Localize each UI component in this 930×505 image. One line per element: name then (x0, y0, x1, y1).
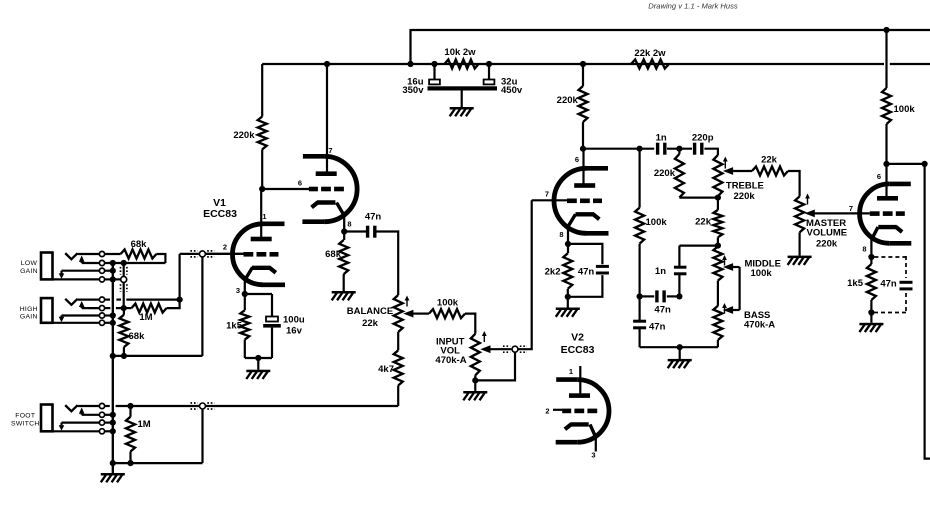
svg-text:68k: 68k (325, 249, 342, 260)
capacitor 47n (mid) (655, 290, 666, 302)
svg-text:470k-A: 470k-A (435, 355, 466, 366)
jack HIGH GAIN input (41, 297, 105, 325)
svg-text:8: 8 (559, 230, 563, 239)
wire cathode gnd stub (257, 358, 259, 370)
wire shield drain S3 (201, 409, 203, 463)
svg-text:1k5: 1k5 (847, 278, 864, 289)
label 1k5 V3 (847, 278, 864, 289)
node middle top (715, 243, 721, 249)
wire 1n mid bottom (678, 274, 680, 296)
wire 4k7 bottom (397, 386, 399, 407)
resistor 22k (mid) (713, 198, 722, 247)
svg-text:3: 3 (236, 286, 240, 295)
label 22k 2w (634, 48, 666, 59)
label 47n V1b (365, 211, 382, 222)
tube V2a (ECC83) (554, 168, 609, 233)
wiper INPUT VOL (480, 345, 511, 353)
svg-text:350v: 350v (402, 85, 424, 96)
resistor 100k (balance-input) (429, 309, 465, 318)
label 16v (286, 326, 303, 337)
svg-text:450v: 450v (501, 85, 523, 96)
wire 1M to grid node (167, 300, 180, 309)
pin 8 label V3 (862, 245, 866, 254)
up arrow INPUT VOL (482, 331, 487, 342)
svg-text:100k: 100k (751, 268, 773, 279)
wire mid cap branch (679, 245, 718, 247)
ground V1a cathode (246, 370, 270, 379)
pin 8 label V2a (559, 230, 563, 239)
wire V1a cathode lead (245, 267, 253, 294)
shield marks cable (121, 267, 127, 292)
wire HIGH row3 (105, 314, 113, 316)
wiper MIDDLE (723, 263, 740, 271)
pin 7 label V1b (328, 146, 332, 155)
wire right edge drop (925, 164, 930, 459)
wire HIGH tip a (105, 299, 110, 301)
up arrow BASS (722, 303, 727, 314)
up arrow MASTER (805, 194, 810, 205)
shield ring S3 (200, 403, 206, 409)
wire dashed 47n top (874, 256, 906, 278)
jack FOOT SWITCH (41, 403, 105, 434)
wire dashed 47n bottom (874, 293, 906, 314)
label 47n mid (654, 305, 671, 316)
capacitor 47n (V3 optional) (900, 281, 913, 291)
label 450v (501, 85, 523, 96)
ground filter caps (450, 107, 474, 116)
svg-text:1k5: 1k5 (226, 321, 243, 332)
wire bass pot bottom (717, 340, 719, 347)
svg-text:220k: 220k (557, 95, 579, 106)
node 16u junction (431, 61, 437, 67)
wire LOW row4 (105, 278, 121, 280)
wire V1a grid lead (206, 253, 244, 255)
label 1k5 V1a (226, 321, 243, 332)
wire grid node up (179, 254, 181, 300)
svg-text:220p: 220p (692, 133, 714, 144)
node LOW row4 bus (110, 276, 116, 282)
wire 220k V1a bottom (261, 149, 263, 189)
wire rail riser (409, 29, 411, 64)
svg-text:8: 8 (862, 245, 866, 254)
resistor 220k (V2a plate) (579, 86, 588, 122)
label TREBLE (726, 181, 764, 192)
svg-text:1M: 1M (139, 312, 152, 323)
wire tone gnd stub (679, 347, 681, 359)
wire ground bus (112, 263, 114, 473)
wire V1b plate lead (326, 64, 328, 174)
node 1M 68k junction (121, 305, 127, 311)
svg-text:2: 2 (545, 406, 549, 415)
label 220k V2a (557, 95, 579, 106)
node V1b cathode junction (341, 228, 347, 234)
svg-text:VOLUME: VOLUME (807, 227, 848, 238)
wire shield to V1a grid (206, 253, 244, 255)
wire master bottom (798, 232, 800, 255)
wire V2a plate lead (582, 149, 584, 185)
node top rail junction (883, 27, 889, 33)
label 220k V1a (233, 130, 255, 141)
label 22k mid (695, 217, 712, 228)
wire B+ top rail (411, 29, 930, 31)
pin 8 label V1b (347, 220, 351, 229)
resistor 220k (tone slope) (675, 149, 684, 198)
wire shielded cable conductor (123, 263, 125, 308)
node shielded cable top (121, 260, 127, 266)
wiper BALANCE (403, 310, 429, 318)
label 1M FOOT (138, 419, 151, 430)
svg-text:1n: 1n (656, 133, 667, 144)
ground V3 cathode (859, 323, 883, 332)
resistor 4k7 (394, 350, 403, 385)
label 220p (692, 133, 714, 144)
resistor 10k 2w (445, 60, 479, 69)
resistor 68k (HIGH shunt) (119, 308, 128, 356)
node 1k5 V3 bottom (868, 309, 874, 315)
wire S4 drain (475, 353, 515, 381)
node V1a plate junction (259, 186, 265, 192)
svg-text:47n: 47n (649, 322, 666, 333)
capacitor 32u 450v (484, 64, 495, 84)
node LOW row3 bus (110, 268, 116, 274)
wire bass cap top (638, 296, 640, 321)
capacitor 1n (treble) (656, 143, 667, 155)
node 2k2 bottom (565, 294, 571, 300)
ground bus (101, 473, 125, 482)
wire FOOT row4 (105, 430, 113, 432)
pin 7 label V2a (545, 190, 549, 199)
resistor 68k (V1b cathode) (339, 232, 348, 292)
label BALANCE 22k (362, 318, 379, 329)
label 1n mid (655, 266, 666, 277)
tube V1b (ECC83) (302, 156, 357, 221)
pin 6 label V3 (877, 172, 881, 181)
wire V1a plate to V1b grid (262, 188, 309, 190)
pin 2 label V2b (545, 406, 549, 415)
svg-text:SWITCH: SWITCH (11, 421, 40, 428)
pin 3 label V1a (236, 286, 240, 295)
title text (648, 2, 738, 11)
wire 2k2 gnd stub (567, 297, 569, 308)
svg-text:1M: 1M (138, 419, 151, 430)
capacitor 100u 16v (263, 317, 281, 328)
label 1M HIGH (139, 312, 152, 323)
svg-text:ECC83: ECC83 (203, 208, 237, 220)
label BASS 470k-A (744, 320, 775, 331)
wire filter cap ground stub (461, 91, 463, 108)
label V2 name (561, 332, 595, 357)
wire B rail (y64) left (262, 63, 884, 65)
svg-text:1: 1 (262, 212, 266, 221)
wire V2a grid lead (532, 199, 567, 201)
svg-text:2: 2 (223, 243, 227, 252)
wire balance to 4k7 (397, 332, 399, 350)
svg-text:1: 1 (569, 367, 573, 376)
resistor 1k5 (V1a cathode) (240, 310, 249, 339)
label MIDDLE 100k (751, 268, 773, 279)
wire HIGH tip b (126, 299, 179, 301)
label 100k mix (437, 298, 459, 309)
label TREBLE 220k (734, 191, 756, 202)
ground V2a cathode (556, 308, 580, 317)
node rail riser junction (407, 61, 413, 67)
wire 1k5 bottom (244, 340, 246, 359)
wire 47n v2a bottom (568, 275, 603, 297)
wire V1b cathode to 47n (344, 230, 366, 232)
node V2 supply junction (580, 61, 586, 67)
jack LOW GAIN input (41, 251, 105, 282)
svg-text:47n: 47n (880, 279, 897, 290)
pin 6 label V2a (575, 155, 579, 164)
capacitor shared negative plate (428, 86, 498, 90)
svg-text:8: 8 (347, 220, 351, 229)
svg-text:1n: 1n (655, 266, 666, 277)
node V1b plate junction (324, 61, 330, 67)
wire FOOT tip a (105, 405, 110, 407)
wire 100k to plate (885, 124, 887, 166)
svg-text:100u: 100u (283, 315, 305, 326)
wire slope to treble bottom (679, 197, 718, 199)
label BALANCE (347, 306, 393, 317)
pin 1 label V1a (262, 212, 266, 221)
node treble bottom (715, 195, 721, 201)
svg-text:LOW: LOW (21, 260, 38, 267)
potentiometer MASTER VOLUME 220k (795, 196, 804, 232)
label LOW GAIN (20, 260, 38, 275)
capacitor 47n (V2a cathode) (596, 265, 609, 275)
ground master volume (788, 256, 812, 265)
wire 1k5 top (245, 294, 272, 317)
up arrow TREBLE (723, 157, 728, 169)
shield marks S1 (190, 251, 214, 257)
node V3 plate junction (883, 161, 889, 167)
svg-text:220k: 220k (816, 239, 838, 250)
svg-text:47n: 47n (654, 305, 671, 316)
node HIGH row3 bus (110, 312, 116, 318)
label 470k-A input (435, 355, 466, 366)
pin 7 label V3 (849, 204, 853, 213)
node V3 cathode junction (868, 254, 874, 260)
svg-text:100k: 100k (437, 298, 459, 309)
wire 47n mid wires (640, 295, 680, 297)
node tone gnd junction (677, 344, 683, 350)
node FOOT row3 bus (110, 420, 116, 426)
label BASS (744, 310, 770, 321)
wire input vol bottom stub (474, 375, 476, 391)
node 68k bottom (121, 353, 127, 359)
svg-text:220k: 220k (233, 130, 255, 141)
label 32u (501, 76, 518, 87)
wiper MASTER (805, 210, 870, 218)
resistor 1M (FOOT) (126, 406, 135, 463)
wire V2b plate stub (579, 366, 581, 395)
wire V3 cathode lead (871, 227, 878, 257)
tube V3 (ECC83) (860, 184, 912, 243)
node 47n mid junction (676, 293, 682, 299)
pin 1 label V2b (569, 367, 573, 376)
shield marks S3 (191, 403, 215, 409)
wire V3 plate to edge (887, 163, 925, 165)
up arrow MIDDLE (722, 255, 727, 266)
label 47n bass (649, 322, 666, 333)
wire 68k down to row2 (156, 254, 165, 263)
svg-text:2k2: 2k2 (545, 267, 561, 278)
wire HIGH tip dash (116, 299, 121, 301)
svg-text:V2: V2 (571, 332, 584, 344)
wiper TREBLE (723, 167, 752, 175)
wire shield drain S1 (201, 257, 203, 356)
wire 220p to treble (704, 149, 718, 155)
label 1n treble (656, 133, 667, 144)
wire 220k V2 top (582, 64, 584, 86)
svg-text:10k 2w: 10k 2w (444, 47, 476, 58)
wire V1b cathode lead (337, 203, 345, 232)
resistor 1M (HIGH input) (132, 304, 167, 313)
node edge junction (922, 161, 928, 167)
svg-text:100k: 100k (894, 104, 916, 115)
svg-text:6: 6 (575, 155, 579, 164)
node 1M FOOT bottom (127, 460, 133, 466)
ground INPUT VOL (463, 391, 487, 400)
shield ring S1 (199, 251, 205, 257)
svg-text:470k-A: 470k-A (744, 320, 775, 331)
wire V1a cathode rail (245, 357, 272, 359)
label V1 name (203, 197, 237, 220)
wire 22k to master (788, 171, 800, 196)
resistor 2k2 (563, 244, 572, 297)
svg-text:22k: 22k (362, 318, 379, 329)
svg-text:22k 2w: 22k 2w (634, 48, 666, 59)
resistor 1k5 (V3 cathode) (867, 257, 876, 313)
svg-text:HIGH: HIGH (20, 306, 38, 313)
label VOL (440, 346, 460, 357)
resistor 220k (V1a plate) (258, 117, 267, 150)
resistor 22k 2w (631, 60, 669, 69)
wire HIGH row2 b (116, 307, 132, 309)
label 68k LOW (131, 239, 148, 250)
label 2k2 (545, 267, 561, 278)
label 10k 2w (444, 47, 476, 58)
resistor 22k (treble out) (752, 167, 788, 176)
capacitor 220p (693, 143, 704, 155)
wire 47n to balance (377, 232, 399, 296)
pin 2 label V1a (223, 243, 227, 252)
svg-text:68k: 68k (131, 239, 148, 250)
potentiometer TREBLE 220k (713, 155, 722, 196)
wire HIGH row2 a (105, 307, 111, 309)
node V2a plate junction (580, 146, 586, 152)
svg-text:FOOT: FOOT (15, 413, 35, 420)
label 47n V3 (880, 279, 897, 290)
label 100k tone (646, 217, 668, 228)
svg-text:220k: 220k (734, 191, 756, 202)
node input vol bottom (472, 377, 478, 383)
capacitor 47n (bass) (633, 320, 646, 330)
svg-text:6: 6 (877, 172, 881, 181)
label 220k slope (654, 168, 676, 179)
wire 100k feed (885, 30, 887, 88)
pin 3 label V2b (591, 451, 595, 460)
resistor 100k (tone) (635, 149, 644, 297)
capacitor 16u 350v (429, 64, 440, 84)
svg-text:7: 7 (849, 204, 853, 213)
shield marks S4 (503, 346, 527, 352)
node tone 100k junction (637, 146, 643, 152)
wire FOOT line to 4k7 (206, 405, 398, 407)
label MASTER 220k (816, 239, 838, 250)
svg-text:3: 3 (591, 451, 595, 460)
wire S4 to V2a grid (518, 200, 531, 349)
potentiometer BALANCE 22k (394, 295, 403, 332)
wire grid node to shield (180, 253, 199, 255)
svg-text:7: 7 (545, 190, 549, 199)
label 350v (402, 85, 424, 96)
wire HIGH row4 (105, 322, 113, 324)
wire 100k to input vol (465, 314, 475, 334)
label 100k V3 (894, 104, 916, 115)
tube V1a (ECC83) (232, 224, 285, 285)
wire 100u bottom (271, 328, 273, 358)
svg-text:220k: 220k (654, 168, 676, 179)
node FOOT row4 bus (110, 428, 116, 434)
node bus rail y463 (110, 460, 116, 466)
node HIGH row4 bus (110, 320, 116, 326)
node 220k ts junction (676, 146, 682, 152)
node bus rail y356 (110, 353, 116, 359)
wiper BASS (723, 306, 740, 314)
wire V2b grid stub (553, 409, 562, 411)
wire LOW row3 (105, 270, 113, 272)
label 22k out (761, 155, 778, 166)
potentiometer MIDDLE 100k (713, 246, 722, 280)
capacitor 1n (middle) (674, 266, 687, 276)
wire to 47n v2a (568, 244, 602, 264)
wire 1k5 gnd stub (870, 313, 872, 323)
potentiometer BASS 470k-A (713, 306, 722, 340)
svg-text:GAIN: GAIN (20, 314, 38, 321)
node 100k bottom (637, 293, 643, 299)
potentiometer INPUT VOL 470k-A (471, 334, 480, 376)
wire bass cap bottom (638, 328, 640, 347)
wire V1a plate lead (260, 189, 262, 239)
node FOOT 1M junction (127, 403, 133, 409)
label 100u (283, 315, 305, 326)
svg-text:100k: 100k (646, 217, 668, 228)
svg-text:4k7: 4k7 (378, 364, 394, 375)
wire 220k V1a top (261, 64, 263, 117)
svg-text:16v: 16v (286, 326, 303, 337)
tube V2b (ECC83) (556, 380, 609, 443)
wire V2b cathode stub (590, 424, 596, 451)
wire FOOT row3 (105, 422, 113, 424)
svg-text:47n: 47n (365, 211, 382, 222)
svg-text:7: 7 (328, 146, 332, 155)
wire mid pot to bass pot (717, 281, 719, 306)
svg-text:6: 6 (298, 179, 302, 188)
wire LOW row2 (105, 262, 166, 264)
wire middle to bass wiper (738, 267, 740, 310)
resistor 68k (LOW input) (121, 250, 157, 259)
capacitor 47n (V1b out) (366, 226, 377, 238)
wire 220k V2 bottom (582, 122, 584, 149)
svg-text:47n: 47n (578, 267, 595, 278)
wire bus rail y356 (113, 355, 203, 357)
label 68k HIGH (129, 331, 146, 342)
pin 6 label V1b (298, 179, 302, 188)
wire V2a cathode lead (568, 214, 576, 244)
svg-text:ECC83: ECC83 (561, 344, 595, 356)
node HIGH tip junction (177, 297, 183, 303)
